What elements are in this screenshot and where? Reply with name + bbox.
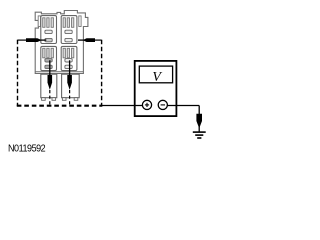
connector cavity row2 left <box>41 46 57 70</box>
dashed breakout box right edge <box>101 40 103 107</box>
terminal slot row1 right upper <box>65 30 72 33</box>
dashed breakout box left edge <box>17 40 19 107</box>
lower cavity shell right <box>62 74 80 98</box>
connector cavity row1 left <box>41 16 57 44</box>
connector C1 right side channel <box>79 16 81 27</box>
pin ribs row1 right cell <box>63 18 74 28</box>
svg-text:V: V <box>152 70 162 85</box>
pin ribs row1 left cell <box>43 18 54 28</box>
terminal slot row1 right lower (probed) <box>65 38 72 41</box>
connector C1 housing outline <box>35 11 88 74</box>
probe lead wire right (into box) <box>95 39 102 41</box>
terminal slot row1 left lower (probed) <box>45 38 52 41</box>
lower cavity shell left <box>41 74 57 98</box>
test probe arrow left <box>26 38 42 42</box>
probe lead wire left (into box) <box>18 39 27 41</box>
connector cavity row1 right <box>61 16 77 44</box>
svg-text:N0119592: N0119592 <box>8 143 45 155</box>
probe tip wire right (to terminal) <box>78 39 84 41</box>
connector cavity row2 right <box>61 46 77 70</box>
pin ribs row2 left cell <box>43 48 54 58</box>
negative jack minus sign <box>161 104 165 106</box>
terminal slot row2 left lower <box>45 65 52 68</box>
terminal slot row1 left upper <box>45 30 52 33</box>
wire: box corner to voltmeter positive jack <box>102 105 143 107</box>
dashed wire to box bottom left <box>49 90 51 106</box>
connector C1 inner bottom wall <box>35 71 83 73</box>
pin ribs row2 right cell <box>63 48 74 58</box>
ground drop wire <box>198 106 200 132</box>
voltmeter V1 display window <box>139 66 172 83</box>
terminal slot row2 right upper <box>65 59 72 62</box>
ground symbol <box>193 132 206 138</box>
cavity feet right <box>62 98 77 101</box>
probe wire row2 right <box>69 60 71 76</box>
positive jack plus sign <box>145 103 149 107</box>
dashed breakout box bottom edge <box>17 105 103 107</box>
terminal slot row2 right lower <box>65 65 72 68</box>
voltmeter V1 body <box>135 61 177 116</box>
probe wire row2 left <box>49 60 51 76</box>
dashed wire to box bottom right <box>69 90 71 106</box>
wire: voltmeter negative jack to ground drop <box>167 105 199 107</box>
test probe row2 right (down) <box>67 75 72 90</box>
test probe row2 left (down) <box>48 75 53 90</box>
cavity feet left <box>42 98 56 101</box>
voltmeter negative jack <box>158 100 167 109</box>
probe tip wire left (to terminal) <box>41 39 47 41</box>
terminal slot row2 left upper <box>45 59 52 62</box>
voltmeter positive jack <box>142 100 151 109</box>
test probe arrow right <box>83 38 95 42</box>
test probe on ground wire (down) <box>196 114 202 129</box>
connector C1 left side channel <box>38 16 40 27</box>
